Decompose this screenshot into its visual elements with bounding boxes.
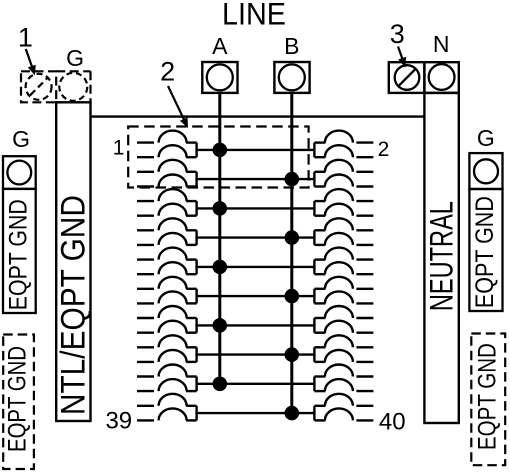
neutral bar NEUTRAL <box>424 93 458 423</box>
svg-text:2: 2 <box>378 138 390 161</box>
breaker CB13/CB15 (left 2-pole, rows 7-8) <box>137 218 197 245</box>
wire: branch rung 10 <box>197 412 315 414</box>
svg-text:G: G <box>12 126 30 152</box>
right equipment ground lug <box>469 153 502 189</box>
callout 3 arrow <box>398 47 403 61</box>
neutral lug terminal N <box>424 62 458 93</box>
svg-text:LINE: LINE <box>222 0 286 32</box>
breaker CB26/CB28 (right 2-pole, rows 13-14) <box>314 306 373 333</box>
breaker CB10/CB12 (right 2-pole, rows 5-6) <box>314 189 373 216</box>
right equipment ground bar EQPT GND <box>469 189 502 311</box>
breaker CB2/CB4 (right 2-pole, rows 1-2) <box>314 131 373 158</box>
svg-text:EQPT GND: EQPT GND <box>473 343 501 450</box>
junction dot on bus B (rung 4) <box>285 230 300 245</box>
svg-text:2: 2 <box>160 57 175 87</box>
breaker CB5/CB7 (left 2-pole, rows 3-4) <box>137 160 197 187</box>
junction dot on bus B (rung 6) <box>285 289 300 304</box>
terminal B (line phase B lug) <box>274 62 309 93</box>
svg-text:EQPT GND: EQPT GND <box>5 199 33 310</box>
breaker CB29/CB31 (left 2-pole, rows 15-16) <box>137 335 197 362</box>
wire: neutral bonding jumper (top horizontal) <box>91 115 425 117</box>
svg-text:39: 39 <box>105 408 132 435</box>
svg-text:NTL/EQPT GND: NTL/EQPT GND <box>54 195 92 415</box>
junction dot on bus A (rung 3) <box>213 201 228 216</box>
junction dot on bus A (rung 1) <box>213 143 228 158</box>
svg-text:EQPT GND: EQPT GND <box>3 346 31 452</box>
breaker CB6/CB8 (right 2-pole, rows 3-4) <box>314 160 373 187</box>
svg-text:3: 3 <box>390 19 405 49</box>
breaker CB30/CB32 (right 2-pole, rows 15-16) <box>314 335 373 362</box>
wire: branch rung 5 <box>197 266 315 268</box>
junction dot on bus A (rung 5) <box>213 260 228 275</box>
dashed box: branch circuit breaker (item 2) <box>128 127 308 188</box>
svg-text:40: 40 <box>379 408 406 435</box>
dashed ground lug circle <box>59 73 87 101</box>
svg-text:N: N <box>433 31 450 57</box>
left optional equipment ground bar (dashed) <box>3 335 34 470</box>
wire: branch rung 9 <box>197 383 315 385</box>
breaker CB17/CB19 (left 2-pole, rows 9-10) <box>137 248 197 275</box>
wire: branch rung 2 <box>197 178 315 180</box>
breaker CB38/CB40 (right 2-pole, rows 19-20) <box>314 394 373 421</box>
breaker CB9/CB11 (left 2-pole, rows 5-6) <box>137 189 197 216</box>
breaker CB21/CB23 (left 2-pole, rows 11-12) <box>137 277 197 304</box>
terminal A (line phase A lug) <box>202 62 237 93</box>
junction dot on bus A (rung 7) <box>213 318 228 333</box>
junction dot on bus A (rung 9) <box>213 377 228 392</box>
right optional equipment ground bar (dashed) <box>471 334 505 466</box>
svg-text:A: A <box>212 33 228 59</box>
ground/neutral bar NTL/EQPT GND <box>56 102 90 421</box>
junction dot on bus B (rung 2) <box>285 172 300 187</box>
wire: branch rung 4 <box>197 236 315 238</box>
wire: branch rung 6 <box>197 295 315 297</box>
bus A (vertical) <box>218 93 221 385</box>
breaker CB37/CB39 (left 2-pole, rows 19-20) <box>137 394 197 421</box>
wire: branch rung 1 <box>197 149 315 151</box>
svg-text:G: G <box>477 125 495 151</box>
svg-text:NEUTRAL: NEUTRAL <box>423 201 459 311</box>
junction dot on bus B (rung 10) <box>285 406 300 421</box>
breaker CB1/CB3 (left 2-pole, rows 1-2) <box>137 131 197 158</box>
breaker CB14/CB16 (right 2-pole, rows 7-8) <box>314 218 373 245</box>
bonding screw terminal (item 3) <box>389 62 425 93</box>
breaker CB18/CB20 (right 2-pole, rows 9-10) <box>314 248 373 275</box>
wire: branch rung 7 <box>197 324 315 326</box>
dashed box: ground lug position G <box>56 70 90 72</box>
left equipment ground lug <box>3 156 36 189</box>
junction dot on bus B (rung 8) <box>285 347 300 362</box>
svg-text:B: B <box>284 33 299 59</box>
wire: branch rung 8 <box>197 353 315 355</box>
breaker CB25/CB27 (left 2-pole, rows 13-14) <box>137 306 197 333</box>
wire: branch rung 3 <box>197 207 315 209</box>
callout 2 arrow <box>168 86 185 121</box>
dashed box: removable bonding screw (item 1) <box>21 71 56 102</box>
breaker CB34/CB36 (right 2-pole, rows 17-18) <box>314 365 373 392</box>
breaker CB22/CB24 (right 2-pole, rows 11-12) <box>314 277 373 304</box>
svg-text:1: 1 <box>18 22 33 52</box>
svg-text:EQPT GND: EQPT GND <box>471 196 499 308</box>
dashed bonding screw symbol <box>26 74 52 100</box>
bus B (vertical) <box>290 93 293 414</box>
callout 1 arrow <box>26 49 33 68</box>
svg-text:G: G <box>66 45 84 71</box>
left equipment ground bar EQPT GND <box>3 189 36 313</box>
breaker CB33/CB35 (left 2-pole, rows 17-18) <box>137 365 197 392</box>
svg-text:1: 1 <box>113 137 125 160</box>
